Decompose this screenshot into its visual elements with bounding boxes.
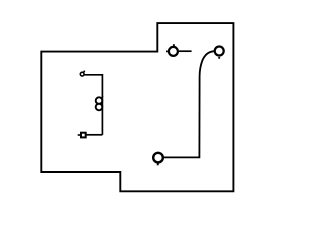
trace from pad P4 down to pad P5 xyxy=(164,51,214,157)
pad P2 (square) xyxy=(81,133,86,138)
pad P4 (upper-right circle) xyxy=(215,47,224,56)
pad P5 (lower circle) xyxy=(153,153,163,163)
stub wire from pad P3 xyxy=(179,50,192,52)
wire P1 to coil (right then down) xyxy=(84,75,102,97)
pad P1 (small circle, top of inductor) xyxy=(80,72,84,76)
tick on pad P3 left xyxy=(166,51,168,53)
tick on pad P4 bottom xyxy=(218,57,220,59)
tick on pad P5 bottom xyxy=(157,163,159,165)
tick on pad P3 top xyxy=(173,44,175,46)
inductor L1 lower loop xyxy=(96,104,103,111)
tick on pad P2 xyxy=(78,134,80,136)
board outline xyxy=(41,23,233,191)
inductor L1 upper loop xyxy=(96,97,103,104)
pad P3 (upper-left circle of top section) xyxy=(169,47,178,56)
wire coil to pad P2 (left) xyxy=(87,134,103,136)
tick on pad P1 xyxy=(83,71,85,73)
inductor L1 vertical lead xyxy=(101,96,103,135)
